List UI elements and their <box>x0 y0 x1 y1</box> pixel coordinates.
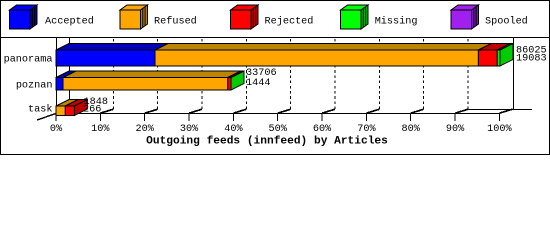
bar panorama <box>56 44 513 67</box>
svg-text:task: task <box>28 103 52 115</box>
svg-text:20%: 20% <box>136 124 155 135</box>
svg-text:1444: 1444 <box>246 78 270 89</box>
svg-text:19083: 19083 <box>516 54 547 65</box>
plot frame <box>56 38 532 114</box>
svg-text:266: 266 <box>83 105 101 116</box>
svg-text:40%: 40% <box>224 124 243 135</box>
svg-text:30%: 30% <box>180 124 199 135</box>
svg-text:90%: 90% <box>446 124 465 135</box>
axis ticks <box>56 114 499 122</box>
outer border <box>1 1 550 155</box>
svg-text:panorama: panorama <box>4 55 53 66</box>
svg-text:100%: 100% <box>487 124 512 135</box>
legend cube Accepted <box>10 5 38 29</box>
svg-text:80%: 80% <box>402 124 421 135</box>
legend cube Missing <box>341 5 369 29</box>
svg-text:50%: 50% <box>269 124 288 135</box>
gridlines <box>113 39 468 110</box>
svg-text:Outgoing feeds (innfeed) by Ar: Outgoing feeds (innfeed) by Articles <box>146 135 388 147</box>
axis depth extension at origin <box>37 114 56 121</box>
percent labels <box>50 124 513 135</box>
svg-text:Missing: Missing <box>375 15 418 27</box>
row labels <box>4 55 53 116</box>
svg-text:Accepted: Accepted <box>45 15 94 27</box>
bar poznan <box>56 71 244 90</box>
svg-text:10%: 10% <box>91 124 110 135</box>
svg-text:Refused: Refused <box>154 15 197 27</box>
legend cube Spooled <box>451 5 479 29</box>
bar task <box>56 100 87 116</box>
tick depth connectors <box>56 109 512 113</box>
legend cube Refused <box>120 5 148 29</box>
svg-text:Rejected: Rejected <box>265 15 314 27</box>
legend box <box>1 1 550 38</box>
svg-text:60%: 60% <box>313 124 332 135</box>
svg-text:poznan: poznan <box>16 81 53 92</box>
svg-text:70%: 70% <box>357 124 376 135</box>
legend cube Rejected <box>231 5 259 29</box>
svg-text:0%: 0% <box>50 124 63 135</box>
svg-text:Spooled: Spooled <box>485 15 528 27</box>
